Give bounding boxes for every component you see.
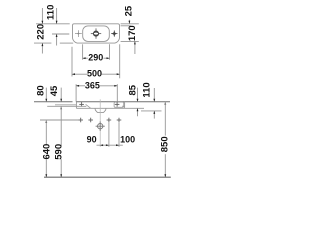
drain trap (front view) [95,108,106,112]
main rim line (front view top edge, extended both sides) [34,101,73,103]
svg-text:45: 45 [49,85,60,96]
svg-text:90: 90 [87,135,97,145]
dimension 640 (floor to mounting holes) [41,120,52,177]
dimension 590 (floor to underside) [53,106,64,177]
dimension 110 (top view, top edge to tap line) [45,5,57,46]
basin body (front view) [76,102,144,109]
dimension 850 (floor to rim) [160,102,171,177]
mounting hole 4 [117,118,122,123]
witness line hole4 down [118,123,120,147]
extension line top-left [36,23,70,25]
svg-text:290: 290 [88,53,103,63]
extension line tap level left [52,33,69,35]
drain symbol (front view) [96,121,105,131]
dimension 220 (top view depth) [36,8,47,54]
extension line bowl-bottom right [121,40,139,42]
mounting hole 3 [107,118,112,123]
svg-text:85: 85 [127,84,138,95]
mounting hole 2 [88,118,93,123]
dimension 25 (top view) [123,5,134,24]
extension line R2b (right) [141,110,162,112]
svg-text:25: 25 [123,5,134,16]
tap platform box (front view right) [114,102,124,107]
svg-text:110: 110 [45,5,56,20]
dimension line 90/100 [87,135,136,147]
floor line [44,176,171,178]
tap hole left (top view) [75,30,82,37]
svg-text:80: 80 [36,85,47,96]
svg-text:850: 850 [160,136,171,152]
extension line L4 (mounting hole level left) [40,119,78,121]
drain symbol (top view) [91,28,101,38]
extension line bottom-left [34,42,51,44]
dimension 290 (bowl width) [83,44,110,62]
bowl interior lines (front view) [86,104,125,108]
mounting hole 1 [78,118,83,123]
svg-text:220: 220 [36,24,47,40]
svg-text:640: 640 [41,144,52,160]
svg-text:365: 365 [85,80,100,90]
extension line bowl-top right [121,25,131,27]
extension line rim inner (left) [55,104,76,106]
dimension 170 (top view) [127,25,138,54]
svg-text:170: 170 [127,25,138,41]
svg-text:110: 110 [142,82,153,97]
dimension 365 (front view, left edge to tap) [76,80,117,101]
basin outline (top view) [73,24,120,43]
extension line L3 (left underside) [47,105,86,107]
dimension 45 (front view left) [49,85,62,102]
bowl outline (top view) [83,26,110,42]
dimension 80 (front view left) [36,85,48,101]
svg-text:100: 100 [120,135,135,145]
witness line hole3 down [108,123,110,147]
svg-text:500: 500 [87,69,102,79]
extension line top-right [121,23,139,25]
tap mark left (front view face) [79,102,84,107]
centerline drain (front view) [99,99,101,147]
svg-text:590: 590 [53,144,64,160]
dimension 85 (front view right) [127,84,138,116]
dimension 110 (front view right) [142,82,156,118]
tap mark right (front view face) [115,102,120,107]
dimension 500 (basin width) [72,44,120,78]
tap hole right (top view) [111,30,118,37]
